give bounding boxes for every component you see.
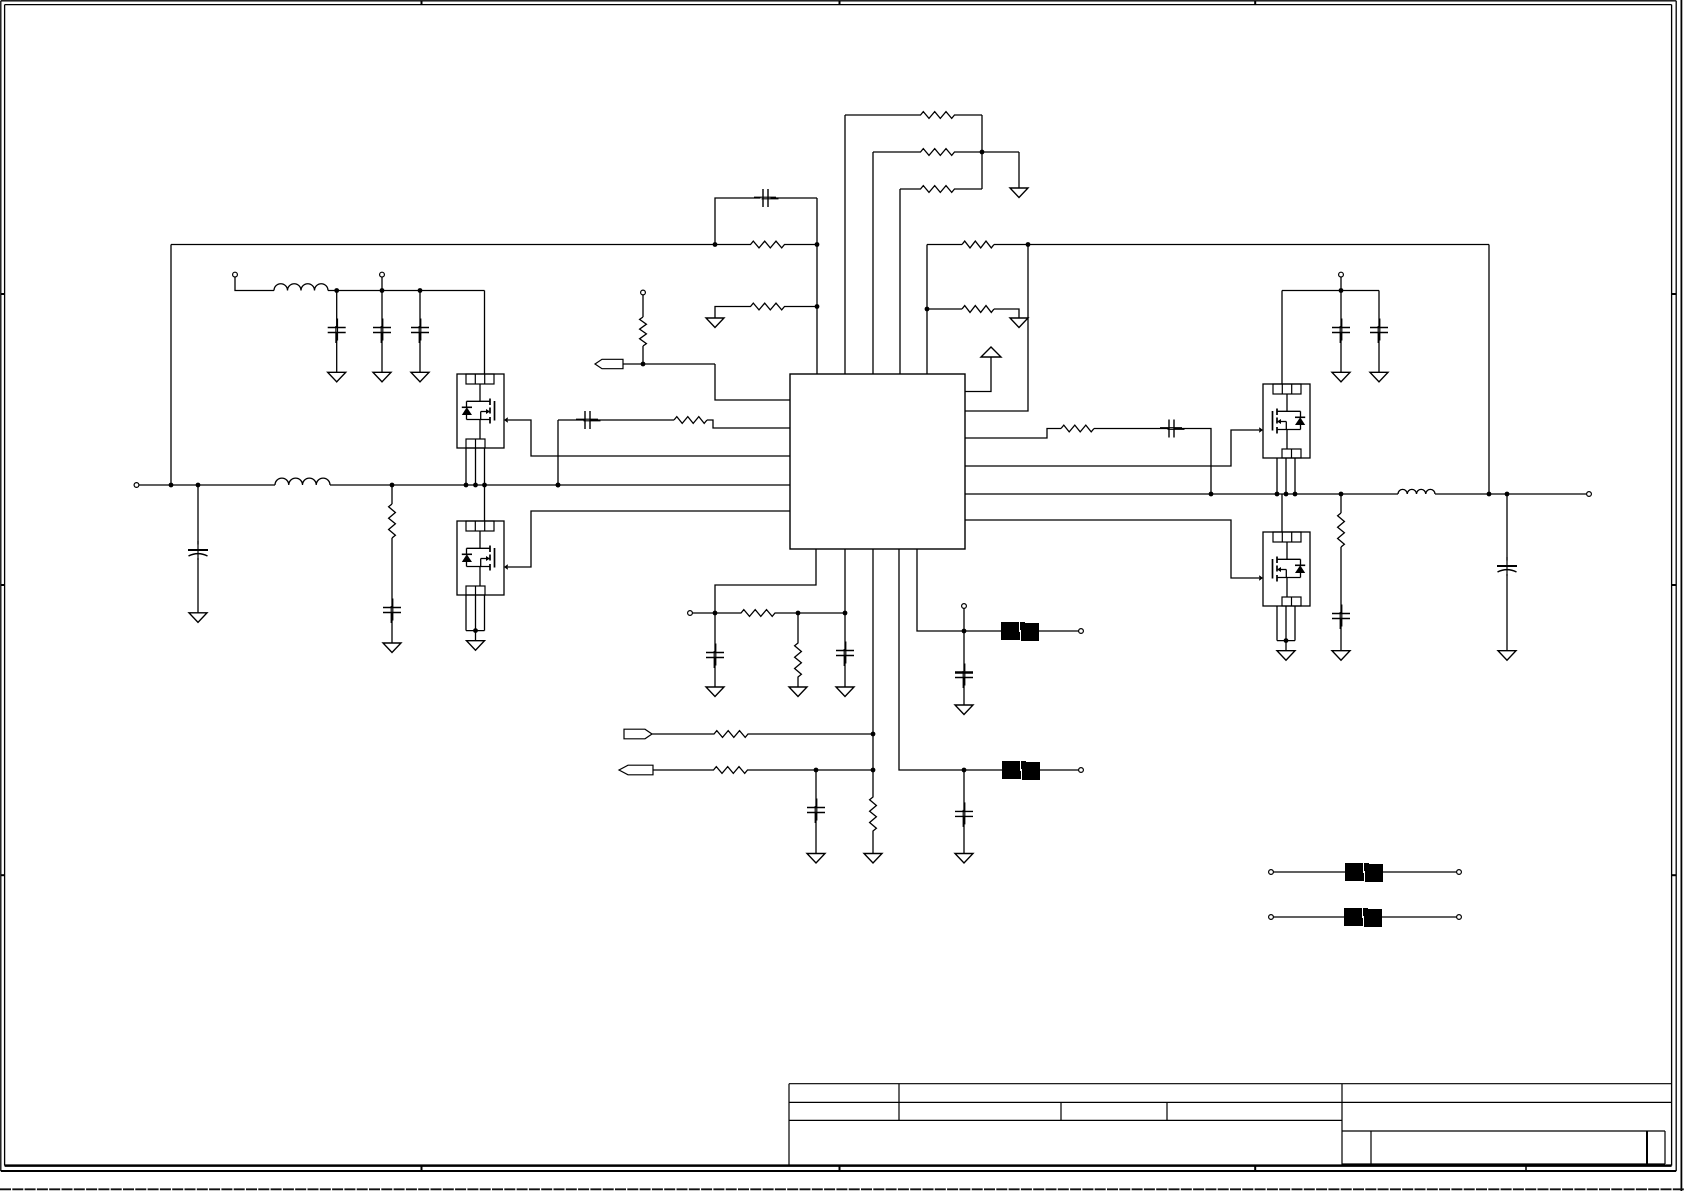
port TP2 circle: [380, 272, 385, 277]
junction pg 816: [814, 768, 819, 773]
wire pin899 route: [899, 549, 964, 770]
wire bus right b: [1435, 493, 1587, 495]
wire C16 gnd: [963, 678, 965, 705]
wire C13 gnd: [714, 658, 716, 687]
wire R7 lead right: [792, 306, 817, 308]
wire C4 gnd: [391, 613, 393, 644]
junction rc 715: [713, 611, 718, 616]
transistor Q1: [457, 374, 508, 448]
wire fb1 out: [1039, 630, 1079, 632]
frame tick right q2: [1672, 584, 1677, 586]
junction bus 1489: [1487, 492, 1492, 497]
wire R10 top: [391, 485, 393, 504]
junction pg 873: [871, 768, 876, 773]
frame bottom dashed edge: [0, 1188, 1685, 1190]
frame tick top q3: [1254, 1, 1256, 5]
port VIN2 circle: [233, 272, 238, 277]
wire vertical node A: [981, 115, 983, 189]
port IN circle: [134, 483, 139, 488]
junction Q1c: [482, 483, 487, 488]
wire R14 top: [797, 613, 799, 641]
port EN arrow: [624, 729, 652, 739]
junction Q1a: [464, 483, 469, 488]
wire C2-R9: [590, 419, 674, 421]
resistor R1: [918, 112, 957, 119]
wire pin2 route: [707, 420, 790, 428]
wire pin-stub U1 top P817: [816, 198, 818, 374]
wire pg lead: [653, 769, 707, 771]
capacitor C13: [706, 644, 724, 669]
junction Q3a: [1275, 492, 1280, 497]
port F3L circle: [1269, 870, 1274, 875]
ground G17: [836, 687, 854, 697]
wire C9 drop: [1378, 291, 1380, 328]
wire rc row a: [692, 612, 734, 614]
junction filt 382: [380, 288, 385, 293]
wire C15 gnd: [815, 813, 817, 854]
wire rfilt: [1282, 290, 1379, 292]
wire f4 lead: [1273, 916, 1344, 918]
junction P1: [641, 362, 646, 367]
wire pin873 stub: [872, 549, 874, 790]
wire f3 out: [1383, 871, 1457, 873]
wire TP2 drop: [381, 277, 383, 291]
wire row2 right: [957, 151, 1019, 153]
resistor R9: [674, 417, 707, 424]
ground G8: [411, 372, 429, 382]
junction Q2 src: [473, 628, 478, 633]
frame edge line right: [1680, 0, 1682, 1191]
wire port P1: [623, 363, 715, 365]
frame tick bottom q1: [421, 1166, 423, 1171]
ground G2: [1010, 318, 1028, 328]
wire Q1 gate route: [508, 420, 790, 456]
wire snub mid: [1094, 428, 1169, 430]
wire pin-stub U1 top P927: [926, 245, 928, 375]
wire Q3 drain entry: [1281, 291, 1283, 385]
wire long feedback: [171, 244, 715, 246]
frame tick bottom q2: [839, 1166, 841, 1171]
ground G21: [955, 854, 973, 864]
ground G4: [189, 613, 207, 623]
capacitor C15: [807, 799, 825, 824]
wire C13 drop: [714, 613, 716, 652]
wire C12 drop: [1506, 494, 1508, 561]
wire rc row b: [782, 612, 845, 614]
ground G16: [789, 687, 807, 697]
title block: [789, 1084, 1672, 1172]
resistor R6: [743, 241, 792, 248]
wire fb1 lead: [964, 630, 1001, 632]
resistor R2: [918, 149, 957, 156]
junction filt 420: [418, 288, 423, 293]
wire Q4 gate route: [965, 520, 1259, 578]
wire row1 left: [845, 114, 918, 116]
ground G10: [1332, 372, 1350, 382]
power VCC1: [981, 347, 1001, 357]
wire bus left b: [330, 484, 790, 486]
wire port drop: [235, 277, 274, 291]
wire snub lead: [965, 429, 1061, 439]
junction Q4 src: [1284, 638, 1289, 643]
wire C14 gnd: [844, 656, 846, 687]
port OUT circle: [1587, 492, 1592, 497]
wire C8 gnd: [1340, 333, 1342, 372]
wire C6 gnd: [381, 333, 383, 372]
capacitor C7: [411, 319, 429, 344]
junction row4: [1026, 242, 1031, 247]
resistor R10: [389, 504, 396, 538]
wire pin-stub U1 top P873: [872, 152, 874, 374]
resistor R15: [708, 731, 754, 738]
frame tick top q2: [839, 1, 841, 5]
wire row2 left: [873, 151, 918, 153]
wire Q1 src pin c: [484, 448, 486, 485]
transistor Q4: [1259, 532, 1310, 606]
junction caploop A: [713, 242, 718, 247]
junction Q3c: [1293, 492, 1298, 497]
junction Q3b: [1284, 492, 1289, 497]
port P1 arrow: [595, 359, 623, 368]
wire Q4 src bar: [1277, 640, 1295, 642]
frame tick bottom q3: [1254, 1166, 1256, 1171]
wire row4 to pin: [965, 245, 1028, 412]
wire Q2 gate route: [508, 511, 790, 567]
ground G5: [383, 643, 401, 653]
wire Q4 gnd stub: [1285, 641, 1287, 651]
resistor R16: [707, 767, 754, 774]
ground G9: [467, 641, 485, 651]
wire C16 drop: [963, 631, 965, 671]
wire fb1 drop: [963, 608, 965, 631]
wire Q4 drain entry: [1281, 494, 1283, 532]
resistor R4: [962, 241, 994, 248]
resistor R13: [734, 610, 782, 617]
capacitor C6: [373, 319, 391, 344]
junction rc 845: [843, 611, 848, 616]
capacitor C5: [328, 319, 346, 344]
wire Q4 src pin c: [1294, 606, 1296, 641]
resistor R5: [962, 306, 994, 313]
port TP3 circle: [1339, 272, 1344, 277]
capacitor C17: [955, 802, 973, 827]
wire R8 top lead: [642, 295, 644, 317]
wire R6 lead right: [792, 244, 817, 246]
wire caploop left: [715, 198, 761, 245]
wire snub right: [1174, 429, 1211, 495]
ground G11: [1370, 372, 1388, 382]
ground G3: [706, 318, 724, 328]
resistor R7: [743, 303, 792, 310]
port FB1 circle: [962, 604, 967, 609]
junction bus 558: [556, 483, 561, 488]
frame tick left q2: [1, 584, 5, 586]
junction rf 1341: [1339, 288, 1344, 293]
wire TP3 drop: [1340, 277, 1342, 291]
wire C17 drop: [963, 770, 965, 811]
capacitor C10: [1160, 420, 1185, 438]
ground G19: [864, 854, 882, 864]
wire row5 left: [927, 308, 962, 310]
junction Q1b: [473, 483, 478, 488]
wire Q2 src pin b: [475, 595, 477, 631]
wire Q3 gate route: [965, 430, 1259, 466]
wire C14 drop: [844, 613, 846, 650]
junction rc 798: [796, 611, 801, 616]
wire left tall drop: [170, 245, 172, 486]
port FB1 out circle: [1079, 629, 1084, 634]
capacitor C2: [576, 411, 601, 429]
capacitor C8: [1332, 319, 1350, 344]
junction en: [871, 732, 876, 737]
wire C11 gnd: [1340, 619, 1342, 651]
wire vcc pin: [965, 357, 991, 392]
resistor R12: [1338, 513, 1345, 547]
wire C8 drop: [1340, 291, 1342, 328]
frame tick left q3: [1, 874, 5, 876]
node A junction: [980, 150, 985, 155]
wire R8 bottom lead: [642, 346, 644, 364]
capacitor C4: [383, 599, 401, 624]
wire C5 gnd: [336, 333, 338, 372]
resistor R17: [870, 790, 877, 838]
wire C2 lead: [558, 419, 585, 421]
wire bus left a: [139, 484, 275, 486]
junction row306: [815, 304, 820, 309]
wire Q4 src pin b: [1285, 606, 1287, 641]
junction C2 bus: [556, 483, 561, 488]
capacitor C1: [754, 189, 779, 207]
capacitor C12 pol: [1497, 557, 1517, 576]
wire f4 out: [1382, 916, 1457, 918]
port F4L circle: [1269, 915, 1274, 920]
wire row1 right: [957, 114, 982, 116]
wire row3 left: [900, 188, 918, 190]
capacitor C14: [836, 642, 854, 667]
IC U1: [790, 374, 965, 549]
ground G6: [328, 372, 346, 382]
inductor L3: [1398, 489, 1435, 494]
wire R10-C4: [391, 538, 393, 608]
wire Q1 drain entry: [484, 291, 486, 375]
wire en right: [754, 733, 873, 735]
wire C3 drop: [197, 485, 199, 545]
wire pin-stub U1 top P845: [844, 115, 846, 374]
wire pin845 stub: [844, 549, 846, 613]
frame tick left q1: [1, 293, 5, 295]
wire Q3 src pin a: [1276, 458, 1278, 494]
ground G7: [373, 372, 391, 382]
wire C17 gnd: [963, 817, 965, 853]
frame tick right q3: [1672, 874, 1677, 876]
bead FB3: [1345, 863, 1383, 882]
junction bus 198: [196, 483, 201, 488]
inductor L1: [275, 478, 330, 485]
ground G14: [1498, 651, 1516, 661]
wire C7 drop: [419, 291, 421, 328]
wire Q3 src pin c: [1294, 458, 1296, 494]
wire Q2 drain entry: [484, 485, 486, 521]
wire Q3 src pin b: [1285, 458, 1287, 494]
junction bus 1507: [1505, 492, 1510, 497]
wire C9 gnd: [1378, 333, 1380, 372]
frame tick top q1: [421, 1, 423, 5]
wire row3 right: [957, 188, 982, 190]
wire Q4 src pin a: [1276, 606, 1278, 641]
port PG arrow: [619, 765, 653, 775]
wire R12-C11: [1340, 547, 1342, 613]
port F4R circle: [1457, 915, 1462, 920]
ground G20: [955, 705, 973, 715]
wire fb2 out: [1040, 769, 1079, 771]
wire R7 to gnd: [715, 307, 743, 319]
wire en lead: [652, 733, 708, 735]
bead FB2: [1002, 761, 1040, 780]
wire bus right a: [965, 493, 1398, 495]
testpoint TP1: [641, 290, 646, 295]
wire C15 drop: [815, 770, 817, 807]
port F3R circle: [1457, 870, 1462, 875]
junction row5 left: [925, 307, 930, 312]
wire Q2 src bar: [466, 630, 485, 632]
ground G13: [1332, 651, 1350, 661]
wire C2 left drop: [557, 420, 559, 485]
wire C6 drop: [381, 291, 383, 328]
transistor Q2: [457, 521, 508, 595]
ground G15: [706, 687, 724, 697]
junction bus 171: [169, 483, 174, 488]
wire Q2 src pin c: [484, 595, 486, 631]
wire C5 drop: [336, 291, 338, 328]
wire row2 gnd stub: [1018, 152, 1020, 188]
wire pin816 route: [715, 549, 816, 613]
wire pg right: [754, 769, 873, 771]
wire pin1 route: [715, 364, 790, 400]
wire fb2 lead: [964, 769, 1002, 771]
frame tick right q1: [1672, 293, 1677, 295]
wire R17 gnd: [872, 838, 874, 854]
wire R6 lead left: [715, 244, 743, 246]
wire pin-stub U1 top P900: [899, 189, 901, 374]
port FB2 out circle: [1079, 768, 1084, 773]
bead FB4: [1344, 908, 1382, 927]
wire C7 gnd: [419, 333, 421, 372]
wire Q2 src pin a: [465, 595, 467, 631]
wire C12 gnd: [1506, 574, 1508, 651]
junction bus 1341: [1339, 492, 1344, 497]
capacitor C11: [1332, 605, 1350, 630]
capacitor C9: [1370, 319, 1388, 344]
junction snub bus: [1209, 492, 1214, 497]
port ADJ circle: [688, 611, 693, 616]
resistor R11: [1061, 425, 1094, 432]
wire right drop: [1488, 245, 1490, 495]
transistor Q3: [1259, 384, 1310, 458]
wire row5 right: [994, 309, 1019, 318]
ground G1: [1010, 188, 1028, 198]
wire Q2 gnd stub: [475, 631, 477, 641]
junction caploop B: [815, 242, 820, 247]
resistor R8: [640, 317, 647, 346]
wire pin917 route: [917, 549, 964, 631]
bead FB1: [1001, 622, 1039, 641]
resistor R3: [918, 186, 957, 193]
junction filt 336: [334, 288, 339, 293]
wire row4 long right: [994, 244, 1489, 246]
wire row4 left: [927, 244, 962, 246]
capacitor C3 pol: [188, 541, 208, 560]
wire Q1 src pin b: [475, 448, 477, 485]
wire f3 lead: [1273, 871, 1345, 873]
ground G12: [1277, 651, 1295, 661]
resistor R14: [795, 641, 802, 679]
wire R14 gnd: [797, 679, 799, 687]
wire R12 top: [1340, 494, 1342, 513]
wire C3 gnd: [197, 558, 199, 613]
wire Q1 src pin a: [465, 448, 467, 485]
capacitor C16: [955, 664, 973, 689]
ground G18: [807, 854, 825, 864]
junction fb2: [962, 768, 967, 773]
wire caploop right: [771, 197, 818, 199]
junction fb1: [962, 629, 967, 634]
inductor L2: [274, 284, 328, 291]
junction bus 392: [390, 483, 395, 488]
wire filt a: [328, 290, 485, 292]
